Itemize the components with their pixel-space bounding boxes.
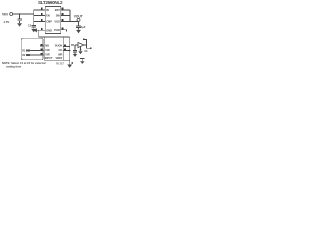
pin numbers U2 left bbox=[41, 44, 43, 55]
svg-text:VIN: VIN bbox=[45, 48, 49, 52]
pin numbers U2 right bbox=[64, 44, 66, 50]
svg-text:4.5V: 4.5V bbox=[4, 20, 10, 24]
pin number blob near bus bbox=[72, 62, 74, 64]
pin numbers left U1 bbox=[41, 8, 43, 30]
wire top edge extension bbox=[63, 36, 69, 38]
capacitor C2 on bus bbox=[32, 25, 36, 27]
IC U2 lower box bbox=[44, 37, 63, 60]
svg-text:CMP: CMP bbox=[46, 20, 52, 24]
wire pin4 left GND stub bbox=[37, 29, 46, 31]
svg-text:SLT2660NL2: SLT2660NL2 bbox=[38, 0, 63, 5]
node dot right bus bbox=[69, 50, 71, 52]
wire right tie bus bbox=[69, 10, 71, 22]
svg-text:SW: SW bbox=[56, 14, 61, 18]
svg-text:VOS: VOS bbox=[54, 20, 60, 24]
svg-text:1N: 1N bbox=[84, 50, 87, 53]
ground (C3) bbox=[73, 54, 77, 57]
svg-text:VIN: VIN bbox=[2, 13, 8, 17]
wire U2 left pin y55 bbox=[30, 54, 45, 56]
svg-text:VIR: VIR bbox=[45, 52, 49, 56]
svg-text:OC: OC bbox=[59, 48, 63, 52]
svg-text:VREF: VREF bbox=[55, 56, 62, 60]
svg-text:DUOK: DUOK bbox=[55, 44, 63, 48]
wire pin1 left IN bbox=[34, 9, 46, 11]
svg-text:IN: IN bbox=[46, 8, 49, 12]
capacitor CIN bbox=[19, 14, 21, 19]
wire pin2 left EN bbox=[34, 15, 46, 17]
wire bottom edge extension bbox=[63, 59, 69, 61]
wire U2 right pin y46.5 bbox=[63, 46, 69, 48]
pin numbers right U1 bbox=[62, 8, 64, 30]
pin names U1 left bbox=[46, 8, 52, 32]
terminal VIN bbox=[10, 13, 13, 16]
pin names U2 left bbox=[45, 44, 53, 60]
capacitor C3 bbox=[74, 45, 76, 50]
wire U2 left pin y50.5 bbox=[30, 50, 45, 52]
op-amp U3 bbox=[78, 43, 84, 48]
svg-text:BST: BST bbox=[55, 8, 61, 12]
arrow symbol bbox=[80, 57, 84, 59]
svg-text:NOTE: Select C1 & C2 for exter: NOTE: Select C1 & C2 for external bbox=[2, 61, 46, 65]
wire U3 bottom branch bbox=[80, 47, 82, 50]
wire VIN bbox=[13, 13, 34, 15]
optional components rounded box bbox=[21, 38, 43, 60]
note text bbox=[2, 61, 46, 69]
svg-text:1µF: 1µF bbox=[81, 25, 86, 29]
wire U2 right pin y50.5 bbox=[63, 50, 69, 52]
terminal VOUT bbox=[77, 18, 80, 21]
ground (C2) bbox=[31, 29, 36, 32]
svg-text:FB: FB bbox=[71, 44, 74, 47]
svg-text:PGD: PGD bbox=[54, 28, 60, 32]
wire right pin y21.5 to VOUT bbox=[61, 21, 79, 23]
wire right pin y10 bbox=[61, 9, 70, 11]
pin names U2 right bbox=[55, 44, 63, 60]
svg-text:INPUT: INPUT bbox=[45, 56, 53, 60]
ground (COUT) bbox=[76, 30, 81, 33]
wire U3 feedback loop bbox=[84, 40, 87, 46]
resistor R2 bbox=[26, 54, 30, 56]
ground (GND pin, rotated left) bbox=[34, 28, 37, 32]
wire GND drop to lower block bbox=[39, 30, 45, 37]
wire left bus bbox=[33, 10, 35, 25]
ground (CIN) bbox=[17, 23, 22, 26]
svg-text:GND: GND bbox=[46, 28, 52, 32]
svg-text:FB SET: FB SET bbox=[56, 63, 65, 65]
node junction on VIN wire bbox=[19, 13, 21, 15]
wire U3 input bbox=[75, 44, 78, 46]
svg-text:WR: WR bbox=[58, 52, 62, 56]
title part number bbox=[38, 0, 63, 5]
svg-text:NB: NB bbox=[45, 44, 49, 48]
ground (U3 branch) bbox=[78, 51, 82, 54]
wire right pin PGD bbox=[61, 30, 67, 32]
svg-text:setting time: setting time bbox=[6, 65, 22, 69]
wire U3 output down-right bbox=[87, 45, 91, 48]
IC U1 box bbox=[45, 7, 60, 34]
wire right pin y15.5 bbox=[61, 15, 70, 17]
wire right lower bus bbox=[69, 37, 71, 64]
ground (lower bus) bbox=[67, 65, 72, 68]
label FB set bbox=[56, 63, 65, 65]
svg-text:VOUT: VOUT bbox=[74, 15, 83, 19]
resistor R1 bbox=[26, 50, 30, 52]
svg-text:EN: EN bbox=[46, 14, 50, 18]
pin names U1 right bbox=[54, 8, 60, 32]
capacitor COUT bbox=[78, 22, 80, 26]
wire U2 left pin y46 bbox=[40, 45, 44, 47]
wire pin3 left CMP bbox=[34, 21, 46, 23]
